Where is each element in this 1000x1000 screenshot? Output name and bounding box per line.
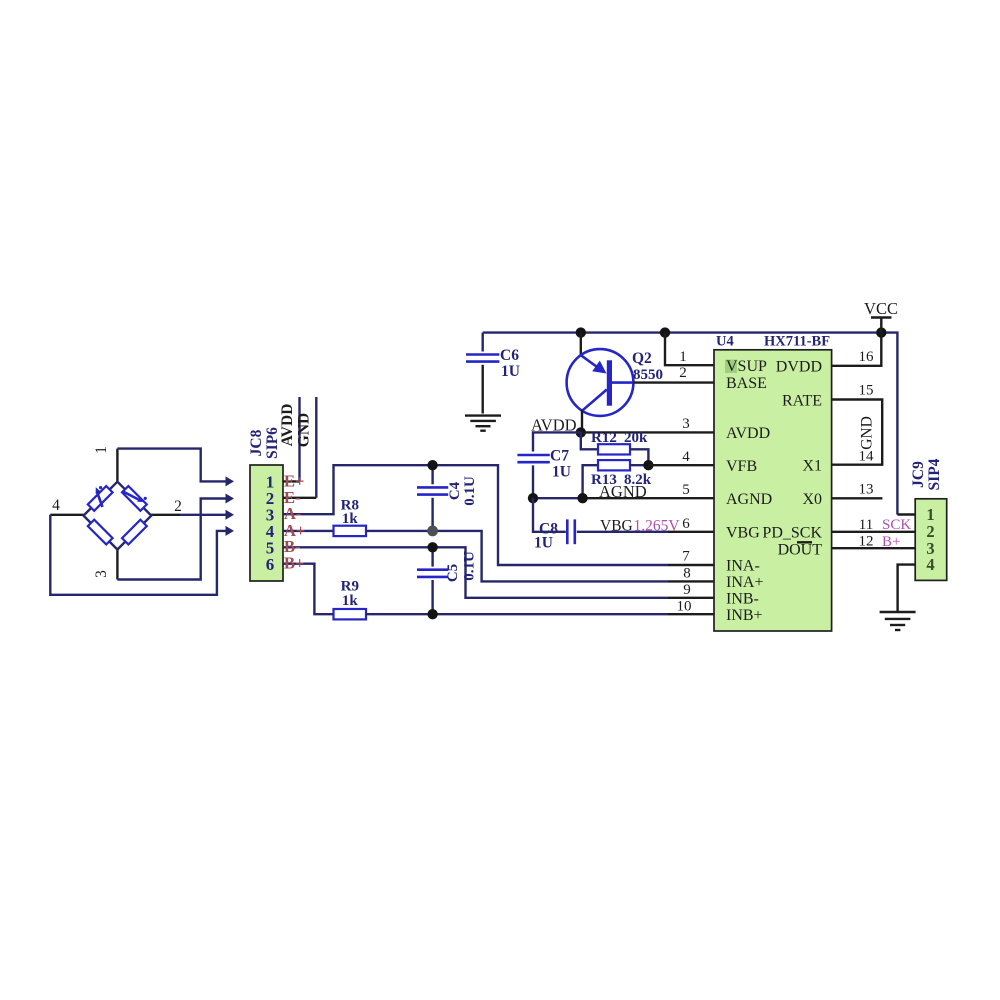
capacitor C8: [533, 498, 668, 551]
svg-text:8: 8: [683, 566, 691, 582]
svg-text:C5: C5: [445, 564, 461, 582]
svg-text:1U: 1U: [501, 363, 520, 380]
ground: below C6: [465, 416, 501, 431]
svg-text:GND: GND: [859, 416, 876, 450]
strain arrow on TL arm: [97, 492, 103, 507]
wire: collector down to AVDD node: [581, 410, 583, 432]
wire: emitter from top rail: [580, 333, 582, 356]
svg-text:C7: C7: [550, 448, 569, 465]
svg-text:X1: X1: [802, 458, 822, 475]
bridge arm RBL: [88, 520, 113, 545]
svg-text:RATE: RATE: [782, 393, 822, 410]
wire: AGND row to U4 pin5: [533, 497, 583, 499]
power VCC symbol: [864, 299, 898, 333]
wire: U4 pin1 from top rail: [665, 333, 714, 366]
net stub AVDD at JC8 pin1: [283, 480, 300, 482]
wire: R9 to U4 pin10 INB+: [366, 613, 668, 615]
svg-text:C4: C4: [447, 481, 463, 500]
DOUT overline: [797, 541, 812, 543]
svg-text:Q2: Q2: [632, 350, 652, 367]
bridge arm RBR: [122, 520, 147, 545]
svg-text:0.1U: 0.1U: [462, 476, 478, 506]
svg-text:HX711-BF: HX711-BF: [764, 334, 830, 350]
svg-text:15: 15: [859, 383, 874, 399]
svg-text:BASE: BASE: [726, 375, 767, 392]
node A: junction top rail / Q2 emitter: [576, 327, 586, 337]
wire: to U4 pin6: [668, 531, 714, 533]
svg-text:6: 6: [266, 555, 275, 574]
svg-text:SIP4: SIP4: [926, 458, 943, 490]
wire: JC9 pin1 stub from VCC rail: [897, 513, 915, 515]
wire: node2 to arrow A-: [151, 514, 180, 516]
svg-text:DVDD: DVDD: [776, 359, 822, 376]
svg-text:3: 3: [682, 416, 690, 432]
svg-text:3: 3: [93, 570, 110, 578]
capacitor C5 0.1U: [417, 547, 478, 614]
svg-text:1k: 1k: [342, 593, 359, 609]
node AVDD: collector/pin3/C7 junction: [576, 427, 586, 437]
wire: U4 pin13 X0 stub: [832, 497, 883, 499]
ground: below JC9: [880, 612, 916, 630]
resistor R8 1k: [334, 498, 367, 537]
svg-text:INB+: INB+: [726, 607, 763, 624]
wire: top VCC rail from C6 to right side: [483, 333, 898, 515]
svg-text:0.1U: 0.1U: [462, 551, 478, 581]
svg-text:10: 10: [677, 599, 692, 615]
wire: JC8 pin5 (B-) to U4 pin9 INB-: [283, 547, 668, 598]
svg-text:GND: GND: [296, 413, 313, 447]
svg-text:C6: C6: [500, 347, 519, 364]
resistor R9 1k: [334, 579, 367, 620]
bridge arm RTR: [122, 486, 147, 511]
node: R13 leg / AGND: [577, 493, 587, 503]
wire: Q2 base to U4 pin2: [633, 381, 714, 383]
node B: junction top rail / U4 pin1: [660, 327, 670, 337]
node: R12/R13 to pin4: [643, 460, 653, 470]
svg-text:12: 12: [859, 534, 874, 550]
svg-text:1k: 1k: [342, 511, 359, 527]
svg-text:B+: B+: [284, 554, 304, 573]
svg-text:AGND: AGND: [726, 491, 772, 508]
svg-text:4: 4: [926, 555, 934, 574]
node: C4 top on A- wire: [427, 460, 437, 470]
svg-text:VBG: VBG: [600, 518, 633, 535]
svg-text:2: 2: [679, 365, 687, 381]
node: C4 bottom on A+ wire (grey): [427, 526, 438, 537]
node C: junction top rail / VCC: [876, 327, 886, 337]
svg-text:1U: 1U: [534, 535, 553, 552]
wire: U4 pin16 DVDD to VCC: [832, 333, 882, 366]
wire: U4 pin11 PD_SCK to JC9 pin2: [832, 531, 916, 533]
wire: U4 pin12 DOUT to JC9 pin3: [832, 547, 916, 549]
svg-text:JC9: JC9: [910, 461, 927, 488]
svg-text:4: 4: [682, 449, 690, 465]
svg-text:6: 6: [682, 516, 690, 532]
wire: JC9 pin4 to ground: [898, 565, 916, 611]
wire: U4 pin15 RATE to pin14 X1 (GND net): [832, 400, 883, 465]
svg-text:8550: 8550: [633, 367, 663, 383]
strain arrow on TR arm: [122, 491, 139, 500]
svg-text:JC8: JC8: [248, 429, 265, 456]
svg-text:VCC: VCC: [864, 299, 898, 318]
svg-text:1: 1: [679, 349, 687, 365]
capacitor C6: [466, 333, 520, 414]
svg-text:INB-: INB-: [726, 591, 759, 608]
svg-text:R12: R12: [591, 430, 617, 446]
svg-text:14: 14: [859, 449, 875, 465]
svg-text:INA-: INA-: [726, 558, 760, 575]
svg-text:9: 9: [683, 582, 691, 598]
resistor R13 8.2k: [583, 460, 652, 498]
svg-text:13: 13: [859, 482, 874, 498]
svg-text:AVDD: AVDD: [279, 404, 296, 447]
svg-text:X0: X0: [802, 491, 822, 508]
svg-text:VSUP: VSUP: [726, 358, 767, 375]
bridge arm RTL: [88, 486, 113, 511]
svg-text:5: 5: [682, 482, 690, 498]
wire: JC8 pin4 (A+) row: [283, 530, 334, 532]
svg-text:20k: 20k: [624, 430, 648, 446]
node: C5 bottom on INB+ wire: [427, 609, 437, 619]
bridge diamond edges: [84, 482, 152, 550]
node: C5 top on B- wire: [427, 542, 437, 552]
svg-text:PD_SCK: PD_SCK: [762, 525, 822, 542]
svg-text:11: 11: [859, 517, 873, 533]
svg-text:INA+: INA+: [726, 574, 763, 591]
wire: node1 to arrow E+: [116, 449, 118, 482]
svg-text:7: 7: [682, 549, 690, 565]
svg-text:B+: B+: [882, 534, 900, 550]
svg-text:4: 4: [52, 497, 60, 514]
net stub GND at JC8 pin2: [283, 497, 316, 499]
wire: node3 to arrow E-: [116, 549, 118, 580]
transistor Q2 8550 (PNP): [567, 333, 663, 433]
node: C7 bottom / AGND: [528, 493, 538, 503]
svg-text:VFB: VFB: [726, 458, 757, 475]
svg-text:AVDD: AVDD: [726, 425, 770, 442]
svg-text:1U: 1U: [552, 464, 571, 481]
capacitor C4 0.1U: [417, 465, 478, 531]
svg-text:2: 2: [174, 498, 182, 515]
resistor R12 20k: [581, 430, 649, 465]
wire: JC8 pin3 (A-) to U4 pin7 INA-: [283, 465, 668, 565]
svg-text:U4: U4: [716, 334, 734, 350]
svg-text:16: 16: [859, 349, 875, 365]
wire: AVDD node to U4 pin3: [581, 431, 714, 433]
wire: JC8 pin6 (B+) down to R9 row: [283, 564, 334, 615]
svg-text:1: 1: [93, 446, 110, 454]
svg-text:DOUT: DOUT: [778, 542, 823, 559]
wire: to U4 pin4 (VFB): [648, 464, 714, 466]
capacitor C7: [517, 448, 571, 499]
wire: AVDD node left to C7: [533, 432, 581, 451]
svg-text:SCK: SCK: [882, 517, 911, 533]
svg-text:VBG: VBG: [726, 525, 760, 542]
wire: node4 to arrow A+: [50, 514, 83, 516]
wire: R8 to U4 pin8 INA+: [366, 531, 668, 582]
